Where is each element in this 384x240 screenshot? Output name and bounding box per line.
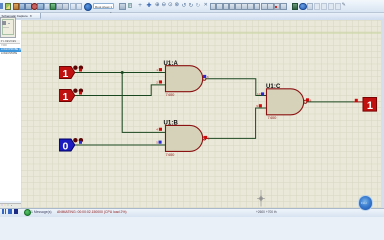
wire input0 to U1:B pin5 [75, 144, 166, 146]
svg-text:7400: 7400 [166, 92, 176, 97]
svg-text:7400: 7400 [166, 151, 176, 156]
pin 9 (state high) [259, 104, 262, 107]
right scrollbar strip [381, 20, 384, 208]
junction node [121, 71, 124, 74]
pin 8 (state high) [306, 98, 309, 101]
pin 10 (state low) [261, 92, 264, 95]
svg-text:4: 4 [156, 127, 158, 131]
svg-text:6: 6 [208, 136, 210, 140]
gate body U1:A [166, 65, 203, 91]
wire U1:B out to U1:C pin9 [206, 108, 267, 138]
svg-text:1: 1 [62, 91, 68, 103]
probe input state square [355, 98, 358, 101]
sim controls: step [8, 209, 10, 213]
gate body U1:B [166, 125, 203, 151]
sim controls: stop [14, 209, 19, 214]
svg-text:2: 2 [156, 80, 158, 84]
pin 2 (state high) [159, 80, 162, 83]
nand gate U1:C [256, 83, 311, 119]
wire junction down to U1:B pin4 [122, 72, 165, 132]
svg-text:1: 1 [62, 68, 68, 80]
list row 7400 [0, 44, 21, 48]
pin 5 (state low) [159, 140, 162, 143]
svg-text:10: 10 [257, 92, 261, 96]
selected row [0, 48, 21, 52]
wire U1:C out to probe [307, 100, 354, 102]
toggle dots [73, 138, 77, 142]
coordinate text [256, 210, 277, 214]
pin state indicator (high) [79, 68, 82, 71]
tab bar [0, 13, 384, 21]
wire input1 to U1:A pin1 [75, 71, 166, 73]
logicstate input B value 1 [60, 88, 84, 103]
sheet top border [21, 31, 381, 33]
probe pin stub [354, 100, 363, 102]
row LOGICSTATE [0, 52, 21, 56]
logicprobe OUT (1) [363, 97, 377, 111]
schematic canvas [21, 20, 381, 208]
svg-text:0: 0 [62, 140, 68, 152]
message text [31, 210, 52, 214]
message green icon [24, 209, 31, 216]
svg-text:1: 1 [156, 67, 158, 71]
DEVICES header row [0, 40, 20, 44]
status bar [0, 208, 384, 218]
pin state indicator (high) [79, 91, 82, 94]
nand gate U1:A [156, 61, 209, 97]
logicstate input A value 1 [60, 65, 84, 80]
pin 3 (state low) [203, 74, 206, 77]
animating text [57, 210, 126, 214]
active tab: Schematic Capture [0, 13, 41, 20]
move cursor [257, 190, 265, 207]
nand gate U1:B [156, 120, 210, 156]
svg-text:9: 9 [256, 104, 258, 108]
svg-text:5: 5 [156, 140, 158, 144]
toggle dots [73, 88, 77, 92]
svg-text:8: 8 [310, 98, 312, 102]
blue bubble overlay bottom right [358, 195, 374, 211]
toggle dots [73, 65, 77, 69]
svg-text:3: 3 [207, 74, 209, 78]
wire U1:A out to U1:C pin10 [206, 78, 267, 95]
sim controls: play [2, 209, 4, 213]
gate body U1:C [267, 88, 304, 114]
blue round help icon [84, 3, 92, 11]
root sheet combo [93, 3, 114, 9]
svg-text:1: 1 [367, 99, 373, 111]
pin 4 (state high) [159, 127, 162, 130]
pin state indicator (low) [79, 140, 82, 143]
logicstate input C value 0 [60, 138, 84, 153]
toolbar [0, 0, 384, 13]
toolbar icons [0, 3, 3, 9]
left panel background [0, 20, 22, 201]
middle icon group [128, 3, 133, 8]
preview (overview) box [0, 17, 16, 38]
wire input2 to U1:A pin2 [75, 84, 166, 95]
pin 1 (state high) [159, 68, 162, 71]
left panel bottom strip [0, 203, 21, 209]
svg-text:7400: 7400 [268, 115, 278, 120]
pin 6 (state high) [204, 135, 207, 138]
